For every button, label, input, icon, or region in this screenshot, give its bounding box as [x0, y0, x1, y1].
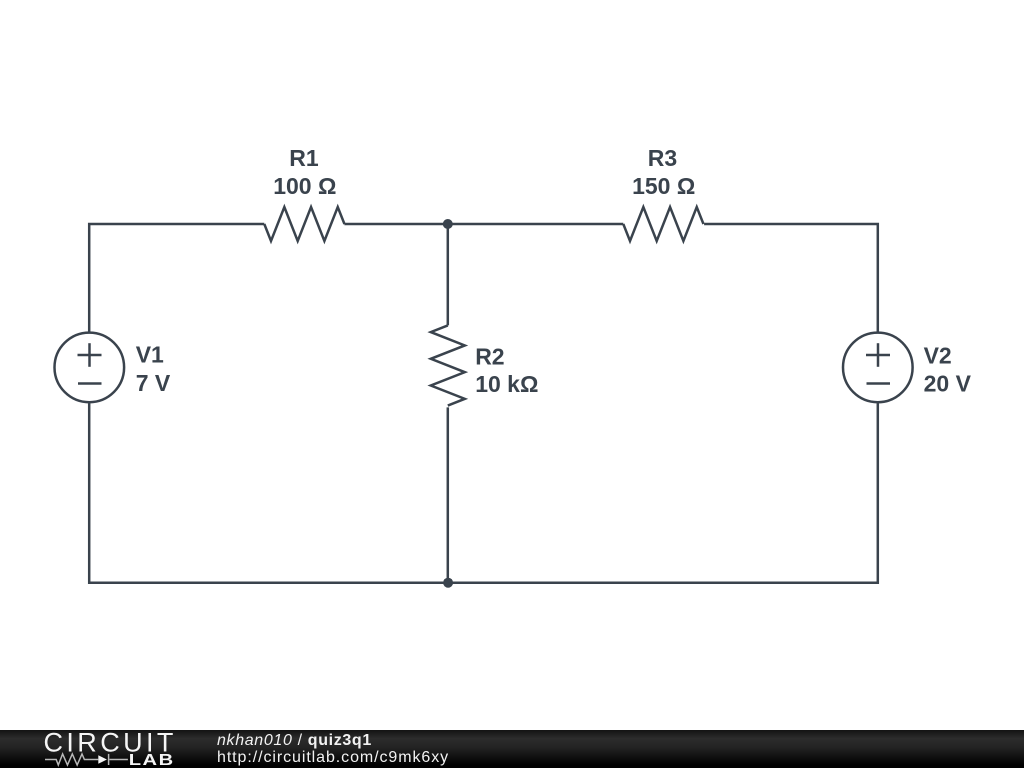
wire R1 to node A [344, 223, 447, 226]
svg-text:R3: R3 [648, 145, 677, 171]
voltage source V1 [55, 333, 125, 403]
svg-text:V2: V2 [924, 343, 952, 369]
svg-text:7 V: 7 V [136, 370, 171, 396]
node A (top junction dot) [443, 219, 453, 229]
CircuitLab logo [0, 730, 200, 768]
wire bottom: V1 bottom to V2 bottom [89, 403, 878, 583]
node B (bottom junction dot) [443, 578, 453, 588]
svg-text:R1: R1 [289, 145, 319, 171]
wire node A to R3 [448, 223, 624, 226]
footer bar [0, 730, 1024, 768]
svg-text:100 Ω: 100 Ω [273, 173, 336, 199]
wire node A to R2 [447, 224, 450, 325]
svg-text:150 Ω: 150 Ω [632, 173, 695, 199]
svg-text:LAB: LAB [129, 751, 175, 768]
footer meta text [216, 729, 218, 731]
resistor R2 [431, 325, 465, 405]
resistor R3 [623, 207, 703, 241]
wire R3 to V2 top [704, 224, 878, 332]
wire top-left: V1 top to R1 [89, 224, 264, 332]
svg-text:R2: R2 [475, 344, 504, 370]
svg-text:10 kΩ: 10 kΩ [475, 371, 538, 397]
resistor R1 [264, 207, 344, 241]
svg-text:20 V: 20 V [924, 371, 972, 397]
voltage source V2 [843, 333, 913, 403]
svg-text:V1: V1 [136, 342, 164, 368]
wire R2 to node B [447, 407, 450, 582]
